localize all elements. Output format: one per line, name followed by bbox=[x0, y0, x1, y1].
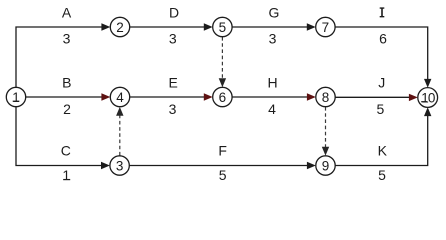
arrowhead into node 10 left (maroon) bbox=[409, 94, 418, 101]
wire: activity E (node 4 to node 6) bbox=[130, 96, 205, 98]
wire: activity B (node 1 to node 4) bbox=[26, 96, 102, 98]
svg-text:G: G bbox=[269, 4, 280, 20]
svg-text:3: 3 bbox=[169, 30, 177, 46]
label J bbox=[378, 74, 385, 90]
svg-text:6: 6 bbox=[219, 90, 227, 105]
node 10 bbox=[418, 88, 438, 108]
node 2 bbox=[110, 17, 129, 36]
svg-text:1: 1 bbox=[62, 167, 70, 183]
node 7 bbox=[316, 17, 335, 36]
arrowhead into node 10 bottom bbox=[424, 107, 431, 116]
arrowhead into node 8 (maroon) bbox=[307, 93, 316, 100]
arrowhead into node 5 bbox=[204, 23, 213, 30]
label K bbox=[378, 142, 388, 158]
svg-text:5: 5 bbox=[378, 167, 386, 183]
svg-text:B: B bbox=[62, 74, 71, 90]
svg-text:6: 6 bbox=[379, 30, 387, 46]
label C bbox=[61, 142, 71, 158]
label F bbox=[218, 142, 227, 158]
arrowhead into node 10 top bbox=[424, 79, 431, 88]
svg-text:1: 1 bbox=[12, 90, 20, 105]
value 5 (activity J) bbox=[377, 101, 385, 117]
label D bbox=[169, 4, 179, 20]
node 4 bbox=[110, 87, 129, 106]
svg-text:4: 4 bbox=[268, 101, 276, 117]
value 5 (activity K) bbox=[378, 167, 386, 183]
label B bbox=[62, 74, 71, 90]
value 3 (activity E) bbox=[169, 101, 177, 117]
wire: activity G (node 5 to node 7) bbox=[232, 26, 307, 28]
svg-text:2: 2 bbox=[63, 101, 71, 117]
wire: activity A path (node 1 up and right to node 2) bbox=[16, 27, 102, 88]
arrowhead into node 9 bbox=[307, 162, 316, 169]
arrowhead into node 7 bbox=[307, 23, 316, 30]
svg-text:3: 3 bbox=[116, 158, 124, 173]
label H bbox=[267, 74, 277, 90]
svg-text:5: 5 bbox=[219, 167, 227, 183]
wire: activity C path (node 1 down and right to node 3) bbox=[16, 107, 102, 166]
value 3 (activity D) bbox=[169, 30, 177, 46]
node 8 bbox=[316, 87, 335, 106]
arrowhead into node 4 (maroon) bbox=[101, 93, 110, 100]
wire: activity H (node 6 to node 8) bbox=[232, 96, 307, 98]
svg-text:8: 8 bbox=[322, 90, 330, 105]
svg-text:10: 10 bbox=[421, 90, 435, 105]
value 2 (activity B) bbox=[63, 101, 71, 117]
svg-text:3: 3 bbox=[169, 101, 177, 117]
value 1 (activity C) bbox=[62, 167, 70, 183]
wire: activity I path (node 7 right then down to node 10) bbox=[335, 27, 428, 79]
svg-text:H: H bbox=[267, 74, 277, 90]
node 5 bbox=[213, 17, 232, 36]
svg-text:F: F bbox=[218, 142, 227, 158]
arrowhead into node 3 bbox=[101, 162, 110, 169]
value 3 (activity G) bbox=[269, 30, 277, 46]
dashed dummy arrow node 8 to node 9 bbox=[322, 107, 329, 156]
value 4 (activity H) bbox=[268, 101, 276, 117]
node 3 bbox=[110, 156, 129, 175]
wire: activity F (node 3 to node 9) bbox=[129, 165, 307, 167]
dashed dummy arrow node 3 to node 4 bbox=[116, 107, 123, 156]
svg-text:5: 5 bbox=[377, 101, 385, 117]
value 5 (activity F) bbox=[219, 167, 227, 183]
svg-text:9: 9 bbox=[322, 158, 330, 173]
wire: activity J (node 8 to node 10) bbox=[335, 96, 409, 98]
svg-text:E: E bbox=[169, 74, 178, 90]
dashed dummy arrow node 5 to node 6 bbox=[219, 37, 226, 87]
svg-text:2: 2 bbox=[116, 20, 124, 35]
label I (crossbar style) bbox=[380, 7, 385, 17]
svg-text:A: A bbox=[62, 4, 72, 20]
svg-text:4: 4 bbox=[116, 90, 124, 105]
wire: activity D (node 2 to node 5) bbox=[130, 26, 205, 28]
svg-text:3: 3 bbox=[269, 30, 277, 46]
value 6 (activity I) bbox=[379, 30, 387, 46]
value 3 (activity A) bbox=[63, 30, 71, 46]
node 1 bbox=[6, 87, 25, 106]
arrowhead into node 2 bbox=[101, 23, 110, 30]
wire: activity K path (node 9 right then up to node 10) bbox=[335, 116, 427, 166]
svg-text:J: J bbox=[378, 74, 385, 90]
svg-text:7: 7 bbox=[322, 20, 330, 35]
label E bbox=[169, 74, 178, 90]
svg-text:C: C bbox=[61, 142, 71, 158]
svg-text:K: K bbox=[378, 142, 388, 158]
label A bbox=[62, 4, 72, 20]
node 9 bbox=[316, 156, 335, 175]
label G bbox=[269, 4, 280, 20]
arrowhead into node 6 (maroon) bbox=[204, 93, 213, 100]
node 6 bbox=[213, 87, 232, 106]
svg-text:3: 3 bbox=[63, 30, 71, 46]
svg-text:D: D bbox=[169, 4, 179, 20]
svg-text:5: 5 bbox=[219, 20, 227, 35]
